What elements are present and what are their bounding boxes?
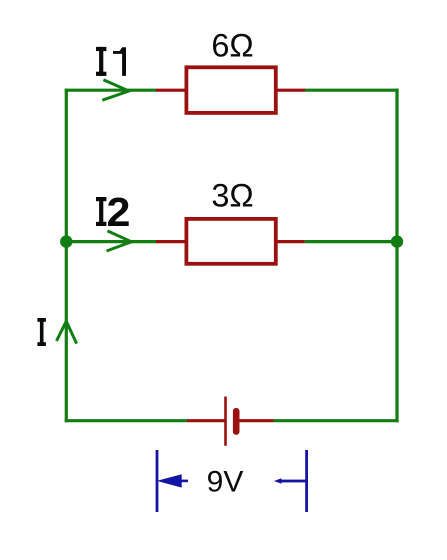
current label I [37,318,46,346]
battery B1 long plate [224,397,227,446]
wire bottom left green [65,419,187,422]
svg-text:9V: 9V [207,466,244,499]
dimension arrow left [157,474,188,487]
node junction dot right [391,235,403,247]
dimension bar left [156,450,159,512]
current label I1 [96,47,126,76]
svg-text:3Ω: 3Ω [211,178,253,214]
resistor R1 6ohm box [186,67,275,113]
wire middle left red lead [156,240,186,243]
wire left vertical [65,89,68,423]
wire top left red lead [156,89,186,92]
wire bottom right red lead [239,419,274,422]
wire middle left green [66,240,156,243]
dimension bar right [305,450,308,512]
current arrow I [57,321,77,343]
node junction dot left [60,235,72,247]
svg-text:2: 2 [107,189,131,235]
dimension line right [274,478,307,483]
resistor R2 3ohm box [186,219,275,264]
wire top right green [305,89,399,92]
wire middle right green [305,240,397,243]
wire top right red lead [277,89,306,92]
wire top left green [65,89,156,92]
wire middle right red lead [277,240,305,243]
current arrow I2 [107,231,132,251]
wire bottom right green [274,419,399,422]
svg-text:6Ω: 6Ω [211,28,253,64]
current label I2 [96,189,130,235]
wire bottom left red lead [187,419,226,422]
battery B1 short plate [233,408,240,435]
wire right vertical [395,89,398,423]
current arrow I1 [102,80,129,100]
